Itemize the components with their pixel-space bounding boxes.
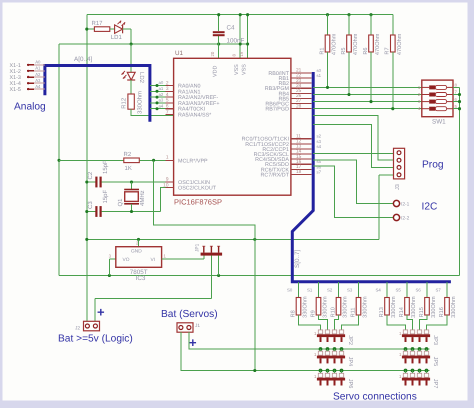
wire J2+ drop xyxy=(94,298,96,321)
svg-text:JP6: JP6 xyxy=(347,379,353,389)
svg-text:12: 12 xyxy=(296,139,302,145)
svg-text:A[0..4]: A[0..4] xyxy=(74,56,92,63)
svg-text:C4: C4 xyxy=(227,25,236,32)
svg-text:I2-1: I2-1 xyxy=(401,202,410,208)
servo +V row group 1 xyxy=(319,347,323,351)
wire JP1 pin2 to J2+ xyxy=(210,256,212,299)
wire GND top rail xyxy=(87,14,393,16)
wire X1-1 bus entry xyxy=(34,64,45,66)
wire RB5 to SW1 pin 4 xyxy=(313,108,422,110)
junction SW1 common xyxy=(458,100,461,103)
pin RA4 (6) xyxy=(150,108,174,110)
pin MCLR 1 xyxy=(166,159,174,161)
wire +5V vertical left xyxy=(58,44,60,276)
svg-text:470Ohm: 470Ohm xyxy=(374,33,381,55)
wire X1-2 bus entry xyxy=(34,70,45,72)
pin RC3 (14) xyxy=(291,153,312,155)
junction R6 / SW1 row3 xyxy=(369,100,372,103)
wire RB4 to SW1 pin 3 xyxy=(313,101,422,103)
svg-text:VSS: VSS xyxy=(234,64,240,75)
svg-text:JP1: JP1 xyxy=(195,243,201,252)
svg-text:VSS: VSS xyxy=(241,64,247,75)
junction crystal bottom xyxy=(130,210,133,213)
wire +5 to R2 xyxy=(59,159,124,161)
svg-text:R11: R11 xyxy=(350,307,356,317)
wire bus entry S5 xyxy=(406,282,408,298)
connector JP6 xyxy=(314,373,353,388)
wire R17 to LD1 xyxy=(110,28,115,30)
wire C3 to OSC2 route xyxy=(102,211,161,213)
svg-text:R17: R17 xyxy=(92,20,104,27)
pin RA3 (5) xyxy=(150,102,174,104)
svg-text:A0: A0 xyxy=(35,60,41,65)
svg-text:2: 2 xyxy=(166,80,169,86)
svg-text:X1-5: X1-5 xyxy=(10,87,21,93)
wire R2 to MCLR pin1 xyxy=(139,159,173,161)
pin RC5 (16) xyxy=(291,163,312,165)
resistor R16 xyxy=(439,296,457,318)
junction GND line / 7805 GND xyxy=(137,238,140,241)
LED LD2 xyxy=(122,71,136,80)
crystal Q1 xyxy=(124,190,139,204)
svg-text:20: 20 xyxy=(210,51,215,56)
svg-text:7: 7 xyxy=(166,109,169,115)
svg-text:+: + xyxy=(97,305,105,320)
junction +5 rail / JP1 pin xyxy=(217,274,220,277)
svg-text:a3: a3 xyxy=(159,98,164,103)
svg-text:4MHz: 4MHz xyxy=(139,190,146,206)
svg-text:RC7/RX/DT: RC7/RX/DT xyxy=(261,172,290,178)
wire OSC2 line left xyxy=(87,211,96,213)
pin RB7 (28) xyxy=(291,108,312,110)
junction +5 line end xyxy=(246,42,249,45)
wire 7805 GND stub xyxy=(138,239,140,246)
wire OSC2 pin10 route xyxy=(160,188,173,212)
wire SW1 pin 6 stub xyxy=(453,101,460,103)
svg-text:Prog: Prog xyxy=(422,160,444,171)
pin RB6 (27) xyxy=(291,103,312,105)
svg-text:17: 17 xyxy=(296,164,302,170)
resistor R10 xyxy=(330,296,348,318)
svg-text:100nF: 100nF xyxy=(227,38,245,45)
wire crystal bottom stub xyxy=(131,204,133,212)
wire GND vertical left (to J2) xyxy=(86,15,88,322)
wire C2 to OSC1 pin9 xyxy=(102,181,174,183)
svg-text:A2: A2 xyxy=(35,72,41,77)
wire R1 to SW1 row xyxy=(327,52,329,87)
switch SW1 element 4 xyxy=(422,108,429,110)
pin RC6 (17) xyxy=(291,168,312,170)
wire 7805 VO down xyxy=(108,259,110,276)
svg-text:JP5: JP5 xyxy=(432,357,438,367)
junction +5 vert / R2 xyxy=(57,159,60,162)
svg-text:A1: A1 xyxy=(35,66,41,71)
svg-text:R1: R1 xyxy=(319,47,325,54)
svg-text:S3: S3 xyxy=(347,288,353,293)
svg-text:14: 14 xyxy=(296,149,302,155)
wire servo gnd rail xyxy=(181,332,430,370)
svg-text:GND: GND xyxy=(131,249,142,255)
svg-text:S0: S0 xyxy=(287,288,293,293)
pin RA0 (2) xyxy=(150,85,174,87)
junction GND vert / R17 xyxy=(85,28,88,31)
svg-text:SW1: SW1 xyxy=(432,119,446,126)
svg-text:VDD: VDD xyxy=(212,66,218,77)
svg-text:R8: R8 xyxy=(290,310,296,317)
junction GND rail / R1 xyxy=(326,13,329,16)
wire JP1 pin1 drop xyxy=(203,255,205,258)
svg-text:I2C: I2C xyxy=(422,202,438,213)
window frame top edge xyxy=(0,0,474,3)
svg-text:a2: a2 xyxy=(159,92,164,97)
junction GND rail / VSS2 xyxy=(246,13,249,16)
pad I2-2 xyxy=(393,214,399,220)
svg-text:S4: S4 xyxy=(376,288,382,293)
wire MCLR branch down xyxy=(154,160,255,239)
wire X1-4 bus entry xyxy=(34,82,45,84)
wire R7 to SW1 row xyxy=(392,52,394,109)
window frame right edge xyxy=(468,0,474,408)
resistor R14 xyxy=(399,296,417,318)
svg-text:IC3: IC3 xyxy=(136,275,146,282)
svg-text:330Ohm: 330Ohm xyxy=(430,296,437,318)
svg-text:16: 16 xyxy=(296,159,302,165)
wire RB6 to Prog pin2 xyxy=(313,116,393,161)
capacitor C2 xyxy=(95,177,97,188)
svg-text:15pF: 15pF xyxy=(102,160,109,174)
svg-text:S6: S6 xyxy=(416,288,422,293)
switch SW1 element 3 xyxy=(422,101,429,103)
svg-text:Q1: Q1 xyxy=(117,198,124,207)
svg-text:JP4: JP4 xyxy=(347,357,353,367)
svg-text:LD2: LD2 xyxy=(138,72,145,84)
svg-text:+: + xyxy=(189,335,197,350)
resistor R15 xyxy=(419,296,437,318)
svg-text:JP2: JP2 xyxy=(347,335,353,345)
svg-text:S5: S5 xyxy=(396,288,402,293)
wire to Prog pin1 xyxy=(313,153,393,155)
svg-text:MCLR*/VPP: MCLR*/VPP xyxy=(178,158,208,164)
junction +5 rail / 7805 VO xyxy=(108,274,111,277)
pin RC1 (12) xyxy=(291,143,312,145)
wire RB7 to Prog pin3 xyxy=(313,125,393,168)
wire LD2 to R12 xyxy=(130,80,132,94)
svg-text:24: 24 xyxy=(296,83,302,89)
junction R1 / SW1 row1 xyxy=(326,86,329,89)
window frame left edge xyxy=(0,0,3,408)
svg-text:25: 25 xyxy=(296,88,302,94)
junction GND vert / C3 xyxy=(85,210,88,213)
svg-text:s7: s7 xyxy=(317,169,322,174)
resistor R8 xyxy=(290,296,308,318)
pad I2-1 xyxy=(393,200,399,206)
wire into Prog pin4 xyxy=(379,174,394,176)
svg-text:C3: C3 xyxy=(87,201,94,209)
svg-text:a0: a0 xyxy=(159,80,164,85)
wire GND down to servo gnd rail xyxy=(254,239,256,370)
svg-text:R6: R6 xyxy=(363,47,369,54)
wire bus entry S4 xyxy=(386,282,388,298)
pin OSC1 9 xyxy=(166,181,174,183)
pin RB5 (26) xyxy=(291,97,312,99)
svg-text:R12: R12 xyxy=(120,97,127,109)
wire RC5 to I2C-2 xyxy=(313,166,393,218)
svg-text:X1-3: X1-3 xyxy=(10,75,21,81)
svg-text:R2: R2 xyxy=(124,151,132,158)
wire X1-3 bus entry xyxy=(34,76,45,78)
capacitor C4 xyxy=(213,31,225,33)
svg-text:27: 27 xyxy=(296,98,302,104)
bus S[0..7] xyxy=(292,72,451,282)
svg-text:19: 19 xyxy=(239,51,244,56)
svg-text:s1: s1 xyxy=(317,73,322,78)
svg-text:R15: R15 xyxy=(419,307,425,317)
wire bus entry S6 xyxy=(426,282,428,298)
pin RA1 (3) xyxy=(150,90,174,92)
servo signal routing group 1 xyxy=(299,315,321,330)
svg-text:470Ohm: 470Ohm xyxy=(352,33,359,55)
svg-text:18: 18 xyxy=(296,169,302,175)
svg-text:15pF: 15pF xyxy=(102,189,109,203)
junction GND vert / GND line xyxy=(85,238,88,241)
connector JP4 xyxy=(314,351,353,366)
svg-text:1: 1 xyxy=(166,155,169,161)
switch SW1 element 1 xyxy=(422,86,429,88)
wire R12 to RA5 pin7 xyxy=(131,109,174,115)
svg-text:330Ohm: 330Ohm xyxy=(362,296,369,318)
svg-text:11: 11 xyxy=(296,133,301,139)
svg-text:R16: R16 xyxy=(439,307,445,317)
svg-text:Servo connections: Servo connections xyxy=(333,392,417,403)
junction GND rail / R5 xyxy=(347,13,350,16)
wire SW1 pin 8 stub xyxy=(453,86,460,88)
resistor R5 xyxy=(341,33,359,55)
svg-text:S7: S7 xyxy=(436,288,442,293)
svg-text:VI: VI xyxy=(151,257,156,263)
svg-text:330Ohm: 330Ohm xyxy=(390,296,397,318)
servo +V row group 2 xyxy=(404,347,408,351)
svg-text:26: 26 xyxy=(296,93,302,99)
junction OSC1 / crystal xyxy=(130,180,133,183)
junction +5 line / VSS1 cross xyxy=(239,42,242,45)
svg-text:22: 22 xyxy=(296,73,302,79)
wire GND to R17 xyxy=(87,28,95,30)
svg-text:Analog: Analog xyxy=(14,102,46,113)
wire RB3 to SW1 pin 2 xyxy=(313,94,422,96)
pin RA5 (7) xyxy=(166,114,174,116)
wire R5 to SW1 row xyxy=(348,52,350,95)
svg-text:J1: J1 xyxy=(195,323,200,329)
svg-text:Bat (Servos): Bat (Servos) xyxy=(161,309,218,320)
svg-text:a1: a1 xyxy=(159,86,164,91)
svg-text:C2: C2 xyxy=(87,171,94,179)
svg-text:330Ohm: 330Ohm xyxy=(342,296,349,318)
svg-text:9: 9 xyxy=(166,176,169,182)
svg-text:330Ohm: 330Ohm xyxy=(137,91,144,114)
svg-text:J2: J2 xyxy=(75,326,80,332)
svg-text:X1-2: X1-2 xyxy=(10,69,21,75)
resistor R2 xyxy=(124,158,140,163)
resistor R17 xyxy=(94,27,109,32)
wire C4 bottom to VDD pin xyxy=(218,36,220,58)
bus A[0..4] xyxy=(45,66,150,122)
svg-text:R5: R5 xyxy=(341,47,347,54)
junction GND vert / C2 xyxy=(85,180,88,183)
svg-text:VO: VO xyxy=(123,257,130,263)
pin RB3 (24) xyxy=(291,87,312,89)
svg-text:JP3: JP3 xyxy=(432,335,438,345)
svg-text:R7: R7 xyxy=(385,47,391,54)
resistor R11 xyxy=(350,296,368,318)
junction gnd rail / down wire xyxy=(253,369,256,372)
svg-text:A3: A3 xyxy=(35,78,41,83)
wire servo + rail xyxy=(189,332,430,349)
capacitor C3 xyxy=(95,206,97,217)
pin RC7 (18) xyxy=(291,173,312,175)
wire bus entry S7 xyxy=(446,282,448,298)
svg-text:S2: S2 xyxy=(327,288,333,293)
junction GND rail / VSS1 xyxy=(239,13,242,16)
resistor R7 xyxy=(385,33,403,55)
connector JP5 xyxy=(399,351,438,366)
wire VSS pin 19 stub xyxy=(247,15,249,59)
wire VI to JP1 pin1 xyxy=(162,258,204,260)
wire J2+ horizontal xyxy=(95,297,211,299)
pin RB1 (22) xyxy=(291,77,312,79)
wire VSS pin 8 stub xyxy=(239,15,241,59)
connector J1 Bat servos xyxy=(177,323,193,332)
junction R7 / SW1 row4 xyxy=(391,107,394,110)
svg-text:s4: s4 xyxy=(317,144,322,149)
junction SW1 common xyxy=(458,107,461,110)
svg-text:U1: U1 xyxy=(175,50,184,57)
svg-text:15: 15 xyxy=(296,154,302,160)
wire rail to R5 xyxy=(348,15,350,35)
connector JP2 xyxy=(314,330,353,345)
pin RC4 (15) xyxy=(291,158,312,160)
wire bus entry S3 xyxy=(358,282,360,298)
pin RC2 (13) xyxy=(291,148,312,150)
wire R6 to SW1 row xyxy=(370,52,372,102)
connector JP1 servo power select xyxy=(201,253,223,256)
svg-text:28: 28 xyxy=(296,103,302,109)
svg-text:3: 3 xyxy=(166,86,169,92)
svg-text:23: 23 xyxy=(296,78,302,84)
IC3 7805 body xyxy=(116,247,162,268)
wire OSC1 line left xyxy=(87,181,96,183)
servo gnd row group 1 xyxy=(319,369,323,373)
switch SW1 element 2 xyxy=(422,94,429,96)
svg-text:4: 4 xyxy=(166,92,169,98)
wire RC4 to I2C-1 xyxy=(312,159,314,161)
svg-text:R13: R13 xyxy=(379,307,385,317)
wire Prog pin4 to GND line xyxy=(378,175,380,240)
junction MCLR node xyxy=(152,159,155,162)
resistor R13 xyxy=(379,296,397,318)
wire GND line to 7805/Prog xyxy=(87,238,379,240)
svg-text:S1: S1 xyxy=(307,288,313,293)
resistor R6 xyxy=(363,33,381,55)
junction R5 / SW1 row2 xyxy=(347,93,350,96)
wire rail to R1 xyxy=(327,15,329,35)
svg-text:330Ohm: 330Ohm xyxy=(450,296,457,318)
svg-text:6: 6 xyxy=(166,104,169,110)
svg-text:RA5/AN4/SS*: RA5/AN4/SS* xyxy=(178,113,212,119)
servo gnd row group 2 xyxy=(404,369,408,373)
svg-text:I2-2: I2-2 xyxy=(401,216,410,222)
junction GND rail / C4 xyxy=(217,13,220,16)
junction GND line / MCLR branch xyxy=(253,238,256,241)
svg-text:S[0..7]: S[0..7] xyxy=(294,250,301,268)
resistor R1 xyxy=(319,33,337,55)
svg-text:PIC16F876SP: PIC16F876SP xyxy=(174,197,222,206)
svg-text:R9: R9 xyxy=(310,310,316,317)
svg-text:Bat >=5v (Logic): Bat >=5v (Logic) xyxy=(58,333,133,344)
svg-text:13: 13 xyxy=(296,144,302,150)
svg-text:LD1: LD1 xyxy=(111,34,123,41)
wire bus entry S1 xyxy=(318,282,320,298)
svg-text:R14: R14 xyxy=(399,307,405,317)
wire SW1 pin 5 stub xyxy=(453,108,460,110)
svg-text:J3: J3 xyxy=(395,184,401,190)
wire X1-5 bus entry xyxy=(34,88,45,90)
junction SW1 common xyxy=(458,93,461,96)
pin RB4 (25) xyxy=(291,92,312,94)
wire +5V top line xyxy=(59,43,248,45)
wire bus entry S2 xyxy=(338,282,340,298)
wire rail to R6 xyxy=(370,15,372,35)
svg-text:5: 5 xyxy=(166,98,169,104)
wire C4 top stub xyxy=(218,15,220,32)
wire crystal top stub xyxy=(131,182,133,189)
svg-text:21: 21 xyxy=(296,68,302,74)
pin RB2 (23) xyxy=(291,82,312,84)
resistor R12 xyxy=(128,94,134,109)
svg-text:330Ohm: 330Ohm xyxy=(302,296,309,318)
svg-text:330Ohm: 330Ohm xyxy=(322,296,329,318)
window frame bottom edge xyxy=(0,401,474,408)
junction GND rail / R6 xyxy=(369,13,372,16)
wire LD1 cathode xyxy=(123,28,132,30)
svg-text:OSC2/CLKOUT: OSC2/CLKOUT xyxy=(178,186,217,192)
wire rail to R7 xyxy=(392,15,394,35)
junction +5 line / C4+VDD xyxy=(217,42,220,45)
svg-text:R10: R10 xyxy=(330,307,336,317)
svg-text:A4: A4 xyxy=(35,84,41,89)
connector J2 Bat logic xyxy=(84,321,100,331)
wire +5 to LD2 xyxy=(130,44,132,72)
svg-text:a4: a4 xyxy=(159,103,164,108)
wire +5V long rail xyxy=(59,275,460,277)
svg-text:JP7: JP7 xyxy=(432,379,438,389)
connector JP7 xyxy=(399,373,438,388)
pin OSC2 10 xyxy=(166,187,174,189)
wire 7805 VO stub xyxy=(109,258,115,260)
switch SW1 body xyxy=(422,80,453,117)
svg-text:470Ohm: 470Ohm xyxy=(331,33,338,55)
pin RC0 (11) xyxy=(291,138,312,140)
wire SW1 common vertical xyxy=(459,87,461,275)
svg-text:RB7/PGD: RB7/PGD xyxy=(265,107,289,113)
svg-text:330Ohm: 330Ohm xyxy=(410,296,417,318)
pin RA2 (4) xyxy=(150,96,174,98)
pin RB0 (21) xyxy=(291,72,312,74)
svg-text:470Ohm: 470Ohm xyxy=(396,33,403,55)
svg-text:1K: 1K xyxy=(125,165,132,172)
wire SW1 pin 7 stub xyxy=(453,94,460,96)
wire JP1 pin3 to +5 rail xyxy=(218,256,220,276)
wire bus entry S0 xyxy=(298,282,300,298)
